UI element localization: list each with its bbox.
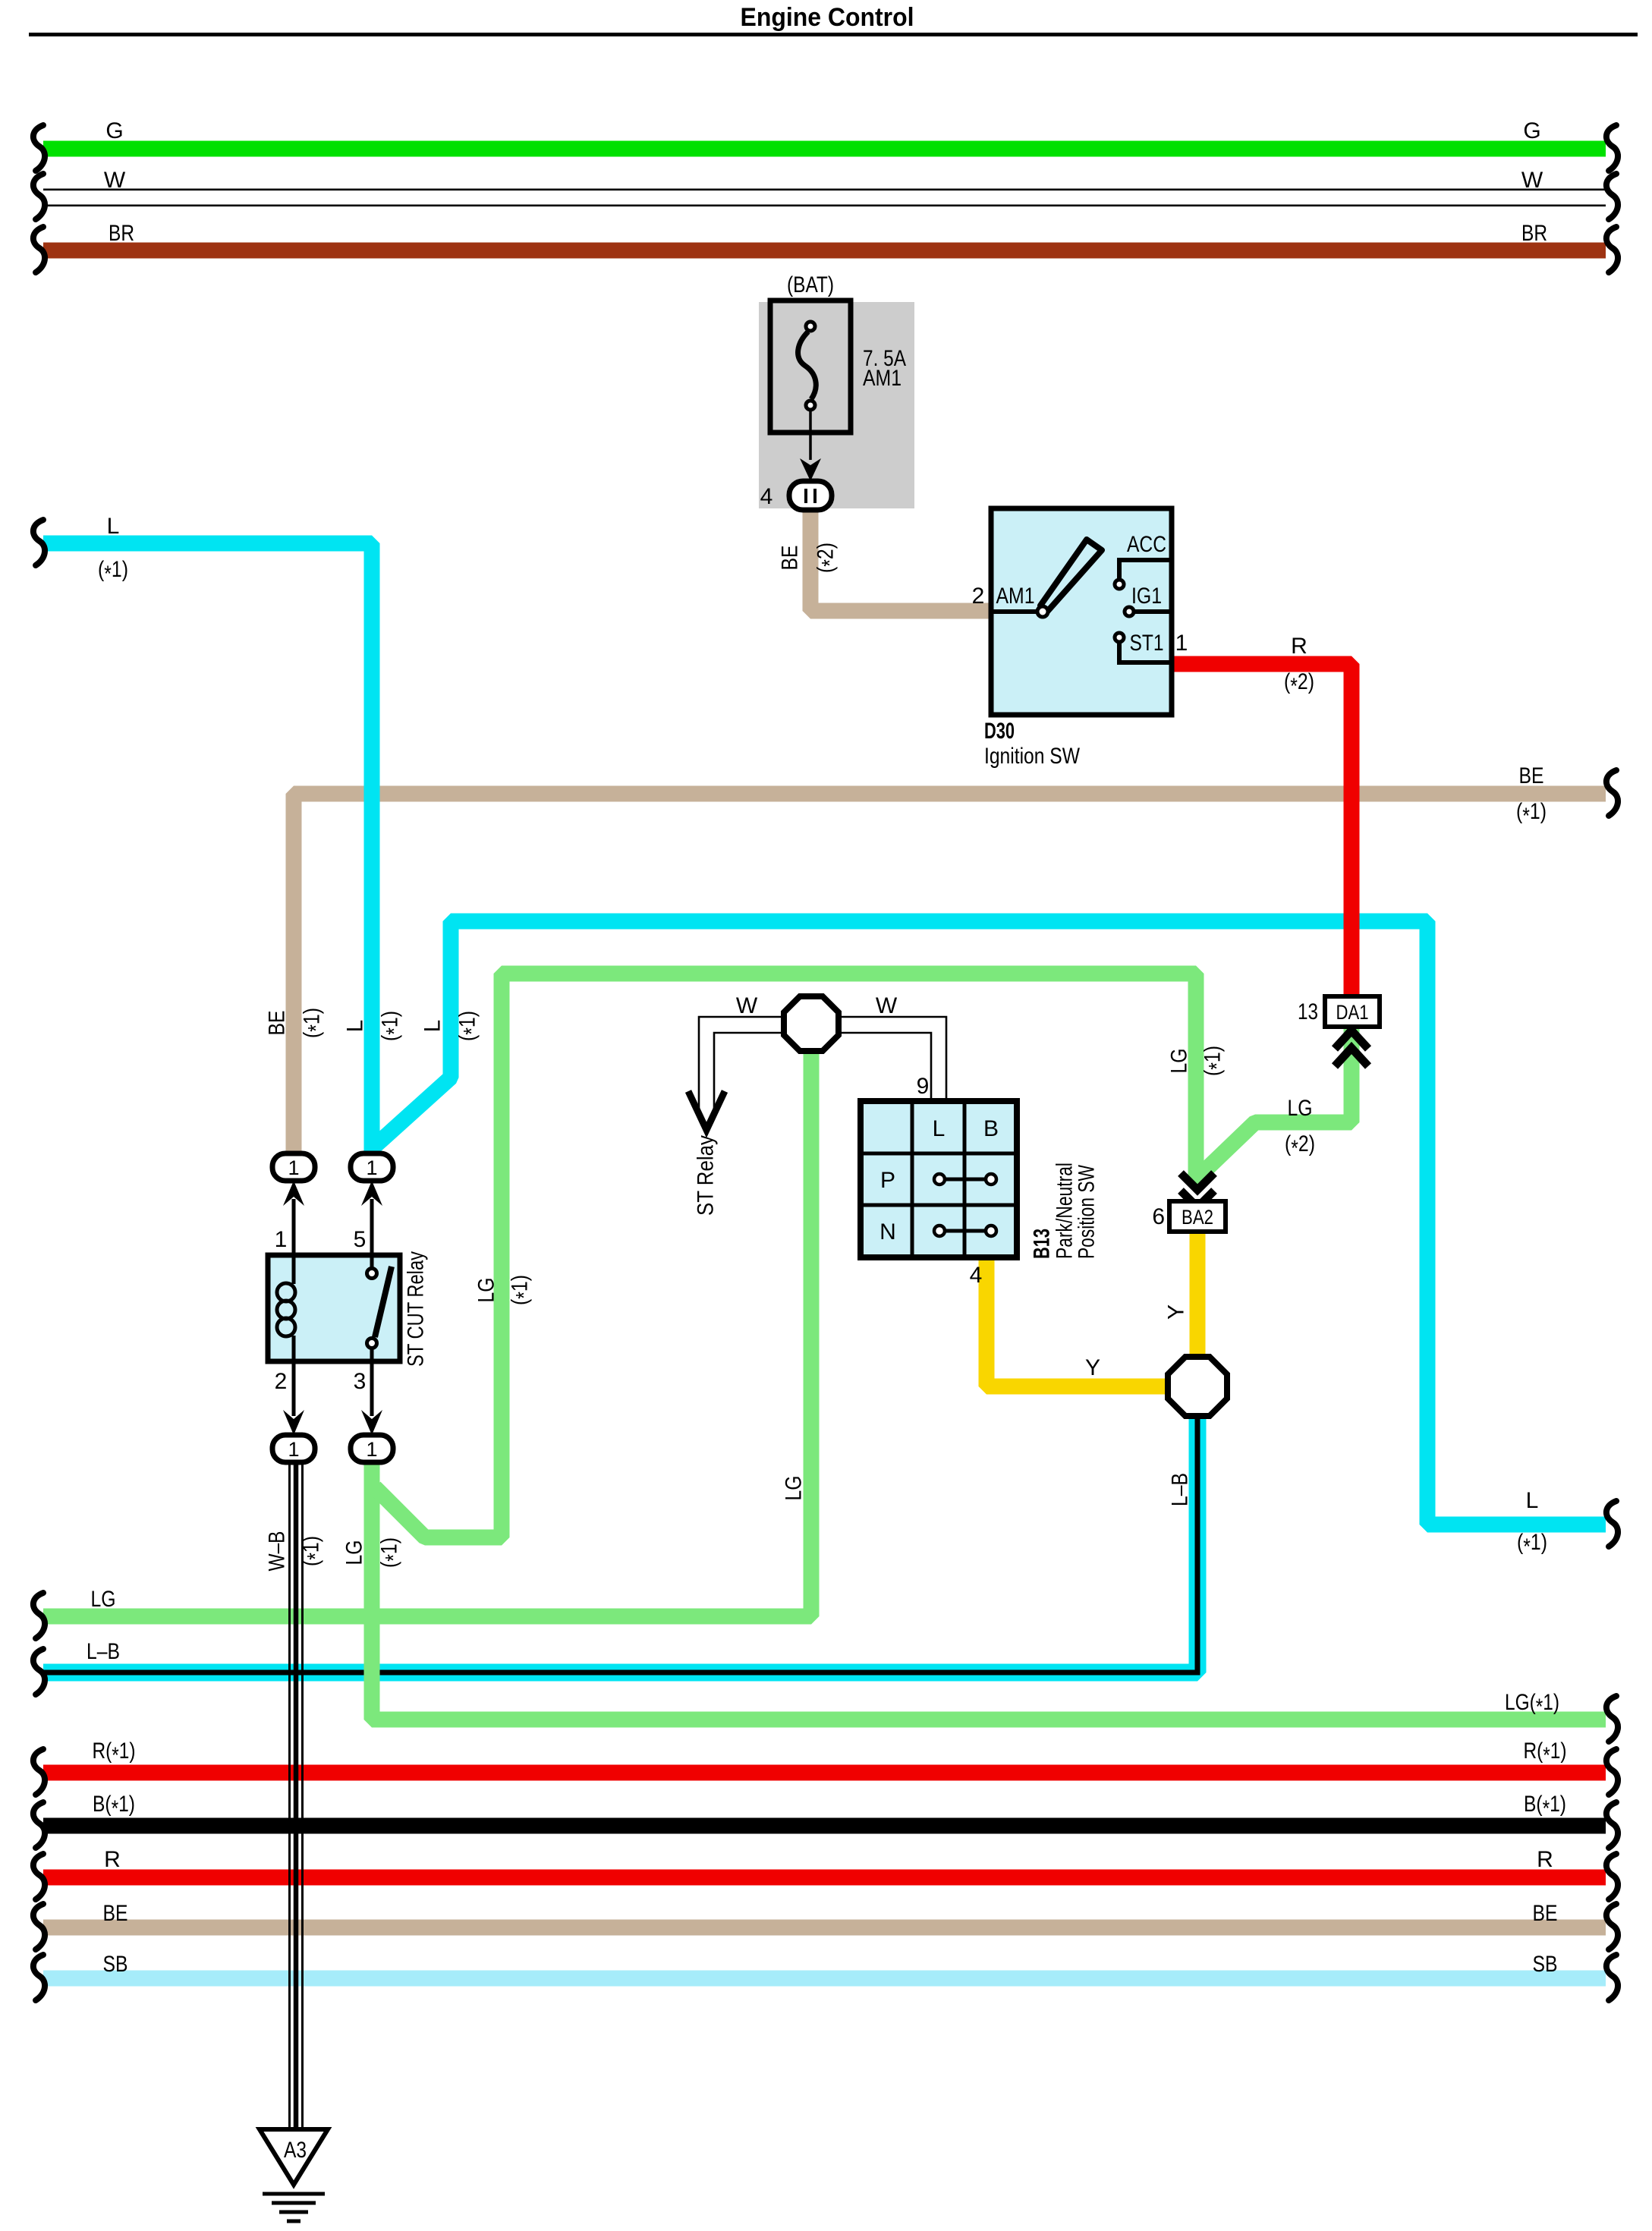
- svg-text:6: 6: [1152, 1204, 1165, 1229]
- svg-text:BR: BR: [1521, 221, 1547, 246]
- svg-text:4: 4: [970, 1263, 983, 1288]
- wire fuse output: [809, 410, 812, 460]
- svg-text:ST CUT Relay: ST CUT Relay: [404, 1251, 429, 1367]
- svg-text:1: 1: [275, 1227, 288, 1252]
- svg-text:BE: BE: [103, 1901, 128, 1926]
- relay coil: [292, 1255, 296, 1361]
- svg-text:2: 2: [275, 1369, 288, 1394]
- wire G bus: [43, 141, 1606, 157]
- svg-text:Y: Y: [1164, 1304, 1189, 1320]
- connector DA1 chevrons: [1335, 1031, 1368, 1066]
- brace W right: [1606, 174, 1618, 219]
- svg-text:(BAT): (BAT): [787, 272, 834, 297]
- wire SB bus: [43, 1971, 1606, 1987]
- svg-text:AM1: AM1: [996, 584, 1035, 609]
- svg-text:L: L: [933, 1116, 946, 1141]
- svg-text:BA2: BA2: [1182, 1206, 1213, 1229]
- svg-text:5: 5: [354, 1227, 367, 1252]
- wire L bus top-left with drop to relay pin 5: [43, 543, 372, 1156]
- svg-text:R: R: [104, 1847, 121, 1872]
- wire R (*1) bus: [43, 1765, 1606, 1781]
- svg-text:W: W: [104, 168, 126, 193]
- arrow into connector II: [800, 458, 821, 481]
- wire BR bus: [43, 243, 1606, 259]
- wire BE bus: [43, 1920, 1606, 1936]
- svg-text:Y: Y: [1085, 1355, 1100, 1380]
- svg-text:SB: SB: [1533, 1952, 1558, 1977]
- svg-text:ST1: ST1: [1130, 631, 1164, 656]
- svg-text:Engine Control: Engine Control: [741, 3, 914, 32]
- svg-text:BE: BE: [1519, 763, 1544, 788]
- brace R right: [1606, 1854, 1618, 1899]
- wire R (*2) from ST1 to DA1: [1172, 664, 1351, 999]
- connector BA2: [1169, 1201, 1226, 1232]
- junction octagon Y / L-B: [1168, 1357, 1227, 1416]
- svg-text:W–B: W–B: [265, 1531, 290, 1572]
- IG1 contact: [1134, 609, 1172, 614]
- wire R bus: [43, 1870, 1606, 1886]
- wire W to ST Relay (left): [699, 1017, 783, 1117]
- wire L-B black stripe: [43, 1413, 1197, 1672]
- svg-text:BR: BR: [109, 221, 134, 246]
- svg-text:BE: BE: [778, 546, 803, 571]
- svg-text:D30: D30: [984, 719, 1015, 744]
- wire B (*1) bus: [43, 1818, 1606, 1834]
- relay switch: [370, 1255, 374, 1361]
- ignition switch D30: [991, 508, 1172, 715]
- svg-text:LG: LG: [1167, 1049, 1192, 1074]
- connector 1 (pin 5): [351, 1153, 393, 1181]
- switch B13 Park/Neutral Position SW: [861, 1101, 1017, 1257]
- fuse block background: [759, 302, 914, 508]
- ground hatching: [263, 2194, 325, 2221]
- svg-text:2: 2: [972, 584, 985, 609]
- svg-text:R: R: [1537, 1847, 1553, 1872]
- svg-text:LG: LG: [474, 1278, 499, 1303]
- wire LG (*2) from DA1 to BA2: [1199, 1029, 1351, 1176]
- brace SB left: [33, 1955, 45, 2000]
- svg-text:W: W: [736, 993, 758, 1018]
- relay ST CUT box: [268, 1255, 400, 1361]
- svg-text:LG: LG: [342, 1540, 367, 1565]
- connector 4 II: [789, 481, 832, 510]
- wire BE (*1) bus with drop to ST CUT relay pin 1: [294, 794, 1606, 1157]
- svg-text:W: W: [1521, 168, 1543, 193]
- relay pin wires 2 and 3: [294, 1361, 372, 1416]
- svg-text:ST Relay: ST Relay: [694, 1135, 719, 1216]
- brace L left: [33, 520, 45, 565]
- connector 1 (pin 2): [272, 1435, 315, 1462]
- arrows into pin1/pin5 ovals: [283, 1181, 304, 1206]
- brace G left: [33, 125, 45, 171]
- connector 1 (pin 3): [351, 1435, 393, 1462]
- ground A3: [260, 2129, 328, 2185]
- svg-text:LG: LG: [91, 1587, 116, 1612]
- wire L-B bus (cyan part): [43, 1413, 1197, 1672]
- ACC contact: [1119, 560, 1172, 579]
- svg-text:SB: SB: [103, 1952, 128, 1977]
- svg-text:L–B: L–B: [87, 1639, 120, 1664]
- brace BE right: [1606, 1904, 1618, 1949]
- brace LG left: [33, 1593, 45, 1638]
- ST1 contact: [1115, 633, 1124, 642]
- svg-text:L: L: [343, 1020, 368, 1033]
- wire LG (*1) branch to top bus and BA2: [375, 974, 1196, 1537]
- brace BR right: [1606, 227, 1618, 272]
- svg-text:Position SW: Position SW: [1075, 1164, 1100, 1259]
- svg-text:3: 3: [354, 1369, 367, 1394]
- svg-text:R: R: [1291, 634, 1307, 659]
- brace W left: [33, 174, 45, 219]
- relay pin wires 1 and 5: [294, 1199, 372, 1255]
- svg-text:IG1: IG1: [1131, 584, 1162, 609]
- svg-text:13: 13: [1298, 999, 1318, 1024]
- svg-text:G: G: [105, 118, 123, 143]
- connector 1 (pin 1): [272, 1153, 315, 1181]
- brace BR left: [33, 227, 45, 272]
- connector BA2 chevrons: [1181, 1173, 1214, 1207]
- brace B(*1) right: [1606, 1802, 1618, 1848]
- svg-text:1: 1: [1175, 631, 1188, 656]
- title rule: [29, 33, 1638, 36]
- brace LG(*1) right: [1606, 1696, 1618, 1742]
- svg-text:B13: B13: [1030, 1229, 1055, 1259]
- brace R left: [33, 1854, 45, 1899]
- svg-text:L: L: [420, 1020, 445, 1033]
- wire W to B13 pin 9 (right): [838, 1017, 946, 1102]
- brace L-B left: [33, 1649, 45, 1694]
- svg-text:L: L: [107, 514, 120, 539]
- brace L (*1) right: [1606, 1501, 1618, 1547]
- svg-text:AM1: AM1: [863, 366, 902, 391]
- brace R(*1) right: [1606, 1749, 1618, 1795]
- svg-text:W: W: [876, 993, 898, 1018]
- arrows into lower ovals: [283, 1410, 304, 1435]
- svg-text:P: P: [880, 1168, 895, 1193]
- svg-text:BE: BE: [265, 1011, 290, 1036]
- svg-text:1: 1: [288, 1438, 299, 1461]
- brace BE (*1) right: [1606, 770, 1618, 816]
- brace B(*1) left: [33, 1802, 45, 1848]
- svg-text:B: B: [983, 1116, 999, 1141]
- svg-text:G: G: [1523, 118, 1540, 143]
- wire W-B from relay pin 2 to ground A3: [290, 1461, 303, 2129]
- brace BE left: [33, 1904, 45, 1949]
- AM1 contact and lever: [991, 609, 1038, 614]
- wire LG from ST relay junction to left edge bus: [43, 1049, 811, 1616]
- svg-text:1: 1: [288, 1156, 299, 1179]
- svg-text:A3: A3: [284, 2138, 307, 2163]
- B13 contact N row: [945, 1229, 986, 1233]
- B13 contact P row: [945, 1178, 986, 1182]
- wire BE from fuse to ignition switch AM1: [810, 507, 991, 611]
- svg-text:BE: BE: [1533, 1901, 1558, 1926]
- svg-text:LG: LG: [782, 1476, 807, 1501]
- arrow to ST Relay: [688, 1091, 725, 1130]
- wire Y from B13 pin 4 to junction: [986, 1257, 1173, 1386]
- svg-text:9: 9: [917, 1074, 930, 1099]
- svg-text:N: N: [879, 1219, 896, 1245]
- svg-text:4: 4: [760, 484, 773, 509]
- svg-text:L–B: L–B: [1168, 1473, 1193, 1506]
- wire L (*1) loop: branch, mid bus and exit right: [373, 921, 1606, 1525]
- brace G right: [1606, 125, 1618, 171]
- fuse 7.5A AM1: [770, 301, 851, 433]
- svg-text:DA1: DA1: [1336, 1001, 1369, 1024]
- svg-text:1: 1: [366, 1438, 377, 1461]
- brace SB right: [1606, 1955, 1618, 2000]
- svg-text:LG: LG: [1288, 1096, 1313, 1121]
- junction octagon ST relay W: [784, 996, 839, 1051]
- wire Y from BA2 to junction: [1190, 1229, 1206, 1360]
- svg-text:Ignition SW: Ignition SW: [984, 744, 1081, 769]
- wire LG (*1) from relay pin 3 to right edge: [372, 1458, 1606, 1720]
- connector DA1: [1325, 996, 1380, 1027]
- svg-text:L: L: [1526, 1488, 1539, 1513]
- wire W bus: [43, 189, 1606, 191]
- svg-text:ACC: ACC: [1127, 532, 1166, 557]
- brace R(*1) left: [33, 1749, 45, 1795]
- svg-text:1: 1: [366, 1156, 377, 1179]
